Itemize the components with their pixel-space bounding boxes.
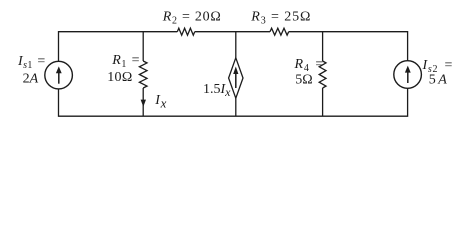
- label R1: [111, 53, 140, 70]
- label 1.5Ix: [203, 82, 231, 99]
- svg-text:10Ω: 10Ω: [107, 70, 132, 85]
- label Is2 value 5A: [429, 72, 449, 87]
- wire bottom: [59, 88, 408, 116]
- label R4: [294, 57, 325, 74]
- current source Is2: [394, 61, 422, 89]
- wire branch dependent source lower: [235, 98, 237, 116]
- label R2 value: [162, 10, 222, 27]
- dependent current source 1.5Ix: [229, 58, 243, 98]
- label R1 value 10ohm: [107, 70, 132, 85]
- svg-text:R3 = 25Ω: R3 = 25Ω: [250, 10, 311, 27]
- svg-text:1.5Ix: 1.5Ix: [203, 82, 231, 99]
- wire top left segment: [59, 32, 178, 62]
- resistor R2: [177, 28, 194, 35]
- svg-text:R4 =: R4 =: [294, 57, 325, 74]
- svg-text:Ix: Ix: [154, 93, 166, 111]
- wire branch R1 upper: [142, 32, 144, 61]
- svg-text:5A: 5A: [429, 72, 449, 87]
- label Is1: [17, 54, 46, 71]
- current source Is1: [45, 61, 73, 89]
- label Ix: [154, 93, 166, 111]
- wire branch R1 lower: [142, 88, 144, 116]
- wire top middle segment: [195, 31, 270, 33]
- svg-text:Is1 =: Is1 =: [17, 54, 46, 71]
- svg-text:R1 =: R1 =: [111, 53, 140, 70]
- svg-text:R2 = 20Ω: R2 = 20Ω: [162, 10, 222, 27]
- label R3 value: [250, 10, 311, 27]
- wire branch R4 lower: [322, 88, 324, 116]
- wire branch R4 upper: [322, 32, 324, 61]
- resistor R1: [139, 61, 147, 88]
- wire branch dependent source upper: [235, 32, 237, 58]
- current arrow Ix: [141, 100, 146, 107]
- label Is2: [422, 58, 454, 75]
- svg-text:2A: 2A: [23, 71, 39, 86]
- wire top right segment: [289, 32, 408, 61]
- label Is1 value 2A: [23, 71, 39, 86]
- label R4 value 5ohm: [295, 73, 312, 88]
- resistor R4: [319, 61, 326, 88]
- resistor R3: [270, 28, 289, 35]
- svg-text:5Ω: 5Ω: [295, 73, 312, 88]
